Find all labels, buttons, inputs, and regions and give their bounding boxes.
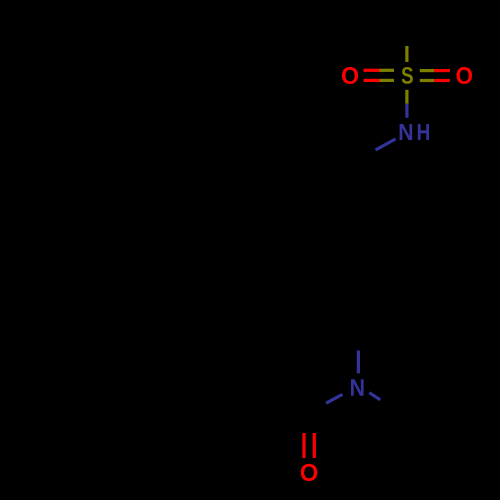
bond S-N (vertical, S half olive, N half blue) — [405, 90, 408, 118]
bond C-N (vertical above ring nitrogen, N-colored half) — [357, 351, 360, 374]
bond S=O right (double bond, line 1: S half olive, O half red) — [420, 69, 450, 72]
atom O (right sulfonyl oxygen label) — [457, 67, 473, 84]
bond S=O right (double bond, line 2) — [420, 79, 450, 82]
bond C=O (carbonyl double bond, line 2, O-colored half) — [313, 433, 316, 458]
atom NH (sulfonamide nitrogen label) — [400, 124, 413, 140]
bond S=O left (double bond, line 2) — [364, 79, 395, 82]
bond CH3-S (methyl stub above S, sulfur-colored half) — [405, 46, 408, 62]
bond NH-C (diagonal down-left, N-colored half) — [376, 139, 396, 150]
bond N-CH2 (diagonal down-right, N-colored half) — [369, 393, 380, 400]
atom O (carbonyl oxygen label) — [301, 464, 318, 481]
bond N-C=O (diagonal down-left to carbonyl carbon, N-colored half) — [326, 394, 343, 403]
atom N (ring nitrogen label) — [351, 379, 364, 396]
bond S=O left (double bond, line 1: O half red, S half olive) — [364, 69, 395, 72]
bond C=O (carbonyl double bond, line 1, O-colored half) — [302, 433, 305, 458]
atom S (sulfur label) — [402, 67, 413, 84]
atom O (left sulfonyl oxygen label) — [342, 67, 358, 84]
